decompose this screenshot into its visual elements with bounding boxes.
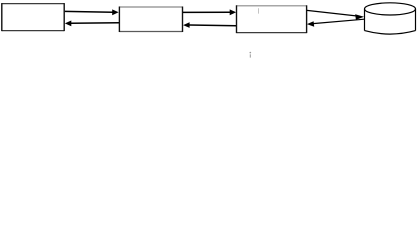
box 2 (middle process box) bbox=[119, 7, 182, 33]
wire arrow box3 -> box2 (bottom) bbox=[183, 22, 236, 28]
wire arrow box2 -> box1 (bottom) bbox=[65, 21, 120, 27]
cylinder (database) bbox=[365, 3, 416, 34]
wire arrow box3 -> cylinder (diagonal down-right) bbox=[307, 10, 364, 20]
box 3 (right process box) bbox=[237, 5, 307, 33]
small i mark below box 3 bbox=[250, 52, 252, 58]
wire arrow box2 -> box3 (top) bbox=[183, 9, 236, 15]
wire arrow box1 -> box2 (top) bbox=[65, 9, 119, 15]
cursor mark inside box 3 bbox=[258, 8, 260, 13]
box 1 (left process box) bbox=[2, 3, 64, 31]
wire arrow cylinder -> box3 (diagonal up-right, arrowhead at box3) bbox=[307, 19, 364, 27]
